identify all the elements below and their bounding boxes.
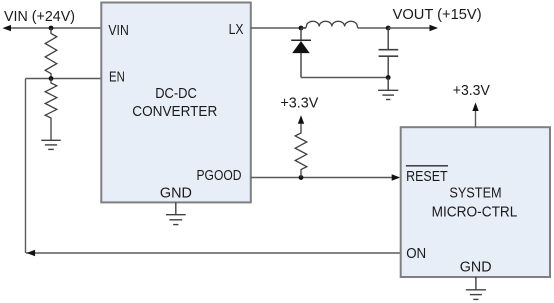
svg-text:VOUT (+15V): VOUT (+15V) (393, 7, 482, 23)
node VOUT junction (386, 26, 391, 31)
svg-text:SYSTEM: SYSTEM (449, 186, 501, 202)
node EN junction (49, 76, 54, 81)
svg-text:EN: EN (109, 70, 125, 86)
wire inductor to VOUT node (358, 27, 388, 29)
ground (DC-DC GND pin) (175, 202, 177, 214)
svg-text:+3.3V: +3.3V (280, 96, 318, 112)
node LX/diode junction (299, 26, 304, 31)
svg-text:VIN (+24V): VIN (+24V) (4, 9, 75, 25)
svg-text:PGOOD: PGOOD (197, 168, 242, 184)
svg-text:CONVERTER: CONVERTER (132, 104, 217, 120)
arrow VOUT (right) (430, 25, 439, 31)
resistor R2 (lower divider) (45, 79, 57, 141)
wire LX (251, 27, 306, 29)
ground (output cap) (387, 78, 389, 91)
wire VOUT output (388, 27, 430, 29)
node VIN/R1 junction (49, 26, 54, 31)
capacitor C1 (387, 28, 389, 50)
inductor L1 (301, 21, 358, 28)
system micro-ctrl block U2 (401, 127, 550, 277)
svg-text:+3.3V: +3.3V (453, 83, 490, 99)
arrow +3.3V pull-up (up) (298, 115, 304, 124)
diode D1 (freewheel) (300, 28, 302, 40)
ground (micro GND pin) (475, 277, 477, 290)
wire VIN input (9, 27, 102, 29)
arrow RESET (right, into micro) (392, 174, 401, 180)
svg-text:ON: ON (406, 246, 426, 262)
arrow VIN (left) (3, 25, 12, 31)
svg-text:LX: LX (229, 22, 244, 38)
svg-text:GND: GND (460, 260, 492, 276)
arrow +3.3V supply (up) (472, 103, 478, 112)
wire EN to ON (left vertical) (25, 79, 27, 254)
svg-text:GND: GND (160, 185, 192, 201)
wire EN (26, 78, 102, 80)
svg-text:RESET: RESET (406, 169, 448, 185)
wire diode/cap bottom rail (301, 77, 388, 79)
wire +3.3V supply (micro) (475, 111, 477, 127)
arrow ON (left, at corner) (27, 250, 35, 256)
wire ON (bottom run) (26, 252, 401, 254)
ground (divider R2) (41, 140, 60, 149)
svg-text:MICRO-CTRL: MICRO-CTRL (432, 205, 518, 221)
resistor R3 (PGOOD pull-up) (295, 123, 307, 177)
node PGOOD junction (299, 175, 304, 180)
node rail/ground junction (386, 75, 391, 80)
svg-text:DC-DC: DC-DC (155, 86, 197, 102)
resistor R1 (upper divider) (45, 28, 57, 79)
wire PGOOD to RESET (251, 177, 392, 179)
svg-text:VIN: VIN (108, 23, 128, 39)
DC-DC converter block U1 (101, 3, 251, 203)
